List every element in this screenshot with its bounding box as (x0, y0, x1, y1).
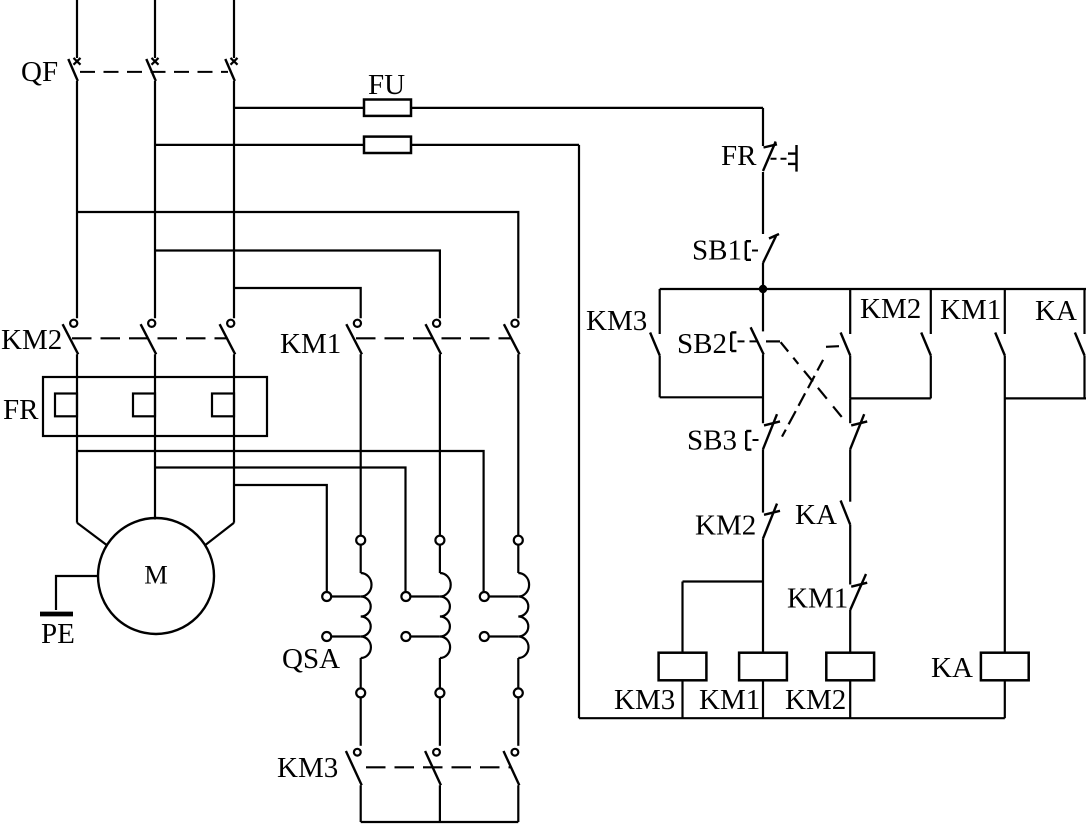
contactor KM1 aux contact (995, 289, 1005, 653)
svg-text:KM1: KM1 (280, 328, 341, 360)
contactor KM2 aux self-hold contact (921, 289, 931, 398)
SB2 link dashes (738, 340, 761, 342)
tap L1 to QSA column 3 (77, 451, 484, 592)
wire coil KM3 to bottom rail (681, 680, 683, 718)
wire L2 QF to KM2 (154, 81, 156, 318)
SB1 button actuator (746, 241, 751, 260)
pushbutton SB2 start NO contact (751, 289, 764, 423)
coil KM1 (739, 653, 787, 681)
wire joining KM1 aux and KA (1005, 397, 1086, 399)
SB2 button actuator (731, 332, 736, 351)
contactor KM1 main contact pole 1 (346, 320, 362, 355)
contactor KM2 main contact pole 3 (220, 320, 236, 355)
svg-text:PE: PE (41, 618, 75, 650)
contactor KM3 star contact pole 3 (504, 749, 520, 786)
svg-text:KM1: KM1 (940, 294, 1001, 326)
tap L2 to QSA column 2 (155, 468, 406, 593)
contactor KM3 star contact pole 1 (346, 749, 362, 786)
svg-text:KM2: KM2 (785, 684, 846, 716)
svg-text:SB2: SB2 (677, 328, 727, 360)
svg-text:KM1: KM1 (699, 684, 760, 716)
QSA bottom terminal 3 (514, 688, 523, 697)
motor M circle (98, 518, 214, 634)
wire KM2 NC to KM1 coil (762, 539, 764, 653)
FR thermal paddle (788, 145, 797, 172)
autotransformer QSA winding 3 (518, 545, 529, 689)
contactor KM2 main contact pole 2 (141, 320, 157, 355)
QSA bottom terminal 2 (435, 688, 444, 697)
wire QSA to KM3 pole 2 (439, 697, 441, 745)
svg-text:SB1: SB1 (692, 235, 742, 267)
svg-text:KM3: KM3 (586, 305, 647, 337)
svg-text:KA: KA (1035, 295, 1077, 327)
fuse FU1 lead from L3 (234, 107, 364, 109)
svg-text:FU: FU (368, 69, 405, 101)
svg-text:KM2: KM2 (860, 293, 921, 325)
contactor KM2 main contact pole 1 (63, 320, 79, 355)
motor lead left diagonal (77, 523, 107, 545)
svg-text:KM2: KM2 (695, 510, 756, 542)
FR heater element 2 (133, 394, 155, 417)
thermal relay FR NC contact (763, 142, 777, 172)
pushbutton SB3 NC contact (763, 414, 780, 449)
wire KM1 pole 1 to QSA terminal (360, 354, 362, 535)
contactor KM1 main contact pole 3 (504, 320, 520, 355)
wire left control conductor down (578, 145, 580, 718)
wire L1 KM2 to motor (76, 354, 78, 522)
KM1 main linkage dashed (356, 337, 511, 339)
svg-text:FR: FR (3, 394, 39, 426)
fuse FU2 lead right (411, 144, 579, 146)
fuse FU1 lead to control rail (411, 107, 763, 109)
contactor KM1 main contact pole 2 (426, 320, 442, 355)
circuit breaker QF pole 1 (68, 58, 80, 81)
wire L2 KM2 to motor (154, 354, 156, 519)
contactor KM3 star contact pole 2 (425, 749, 441, 786)
svg-text:QSA: QSA (282, 643, 340, 675)
wire QSA to KM3 pole 1 (360, 697, 362, 745)
wire control feed down to FR (762, 108, 764, 146)
QSA top terminal 3 (514, 536, 523, 545)
FR heater element 1 (55, 394, 77, 417)
tap L3 to KM1 pole 1 (234, 288, 361, 318)
SB3 button actuator (746, 431, 751, 450)
svg-text:KM3: KM3 (614, 684, 675, 716)
wire KM3 pole 3 to star bus (517, 785, 519, 822)
svg-text:KM1: KM1 (787, 583, 848, 615)
wire L3 KM2 to motor (233, 354, 235, 522)
FR link dashes (771, 158, 789, 160)
coil KM2 (826, 653, 874, 681)
wire KM3 pole 2 to star bus (439, 785, 441, 822)
contact NC linked to SB2 (850, 398, 867, 501)
svg-text:SB3: SB3 (687, 425, 737, 457)
tap L3 to QSA column 1 (234, 485, 327, 592)
wire KM3 pole 1 to star bus (360, 785, 362, 822)
QF linkage dashed line (80, 71, 228, 73)
wire coil KA to bottom rail (1004, 680, 1006, 718)
wire L3 supply vertical (233, 0, 235, 58)
coil KM3 (659, 653, 707, 681)
QSA tap terminals column 2 (401, 592, 440, 641)
tap L1 to KM1 pole 3 (77, 212, 518, 318)
wire SB3 to KM2 NC (762, 449, 764, 512)
relay KA NO contact mid chain (841, 501, 851, 585)
bottom control rail (579, 717, 1005, 719)
fuse FU2 lead from L2 (155, 144, 364, 146)
autotransformer QSA winding 1 (361, 545, 372, 689)
wire L1 QF to KM2 (76, 81, 78, 318)
QSA tap terminals column 3 (480, 592, 519, 641)
KM3 linkage dashed (366, 766, 511, 768)
wire coil KM2 to bottom rail (849, 680, 851, 718)
junction dot node A (759, 285, 767, 293)
wire KM3 aux to centre (660, 396, 763, 398)
wire L3 QF to KM2 (233, 81, 235, 318)
SB1 link dashes (752, 250, 762, 252)
mechanical link SB2 to NC dashed (766, 341, 842, 417)
motor lead right diagonal (205, 523, 234, 545)
svg-text:FR: FR (721, 140, 757, 172)
fuse FU2 body (364, 137, 411, 153)
svg-text:KM2: KM2 (1, 324, 62, 356)
svg-text:KA: KA (795, 499, 837, 531)
svg-text:M: M (144, 560, 168, 590)
KM3 coil branch wire (683, 582, 764, 653)
QSA top terminal 1 (356, 536, 365, 545)
KM2 main linkage dashed (72, 337, 227, 339)
mechanical link SB3 to NO dashed (782, 346, 839, 436)
contact linked to SB3 NO (841, 289, 851, 398)
autotransformer QSA winding 2 (440, 545, 451, 689)
pushbutton SB1 stop NC contact (763, 234, 779, 263)
wire joining SB3-contact and KM2 aux (850, 397, 931, 399)
svg-text:QF: QF (21, 56, 58, 88)
wire coil KM1 to bottom rail (762, 680, 764, 718)
wire SB1 to junction (762, 263, 764, 289)
contactor KM3 self-hold contact (650, 289, 660, 397)
relay KA self-hold contact (1075, 289, 1085, 398)
wire QSA to KM3 pole 3 (517, 697, 519, 745)
PE earth lead (56, 576, 98, 610)
wire FR to SB1 (762, 172, 764, 234)
contact KM1 NC interlock (850, 574, 867, 653)
SB3 link dashes (753, 439, 762, 441)
contact KM2 NC interlock (763, 504, 780, 539)
wire KM1 pole 3 to QSA terminal (517, 354, 519, 535)
coil KA (981, 653, 1029, 681)
circuit breaker QF pole 2 (146, 58, 158, 81)
svg-text:KA: KA (931, 652, 973, 684)
star point bus (361, 821, 519, 823)
ground bar PE (40, 612, 73, 617)
thermal relay FR box (43, 377, 267, 436)
QSA tap terminals column 1 (322, 592, 361, 641)
circuit breaker QF pole 3 (225, 58, 237, 81)
tap L2 to KM1 pole 2 (155, 251, 440, 319)
wire L1 supply vertical (76, 0, 78, 58)
wire KM1 pole 2 to QSA terminal (439, 354, 441, 535)
QSA top terminal 2 (435, 536, 444, 545)
svg-text:KM3: KM3 (277, 752, 338, 784)
control rail (660, 288, 1086, 290)
QSA bottom terminal 1 (356, 688, 365, 697)
fuse FU1 body (364, 100, 411, 116)
wire L2 supply vertical (154, 0, 156, 58)
FR heater element 3 (212, 394, 234, 417)
